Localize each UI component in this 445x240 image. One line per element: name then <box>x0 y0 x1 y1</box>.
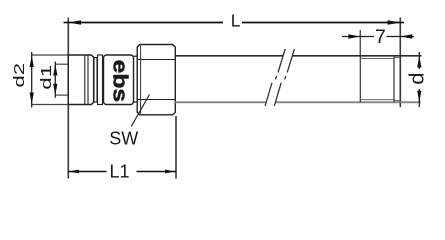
svg-text:7: 7 <box>375 26 386 48</box>
svg-text:SW: SW <box>109 129 138 149</box>
svg-text:d2: d2 <box>11 63 28 88</box>
svg-text:L1: L1 <box>110 162 130 182</box>
svg-text:d: d <box>407 72 429 84</box>
svg-text:ebs: ebs <box>109 60 131 103</box>
svg-text:L: L <box>231 10 241 30</box>
svg-text:d1: d1 <box>38 65 55 90</box>
